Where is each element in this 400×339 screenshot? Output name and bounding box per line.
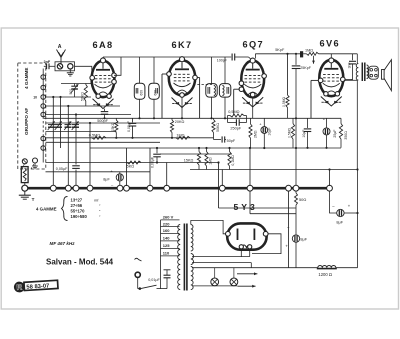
tube label 6A8 [93, 40, 114, 50]
wire 6K7 cathode down [181, 97, 183, 118]
speaker magnet [369, 66, 379, 79]
wire column x150 [149, 148, 151, 186]
band terminal 7 [41, 146, 46, 151]
svg-text:mℓ: mℓ [94, 198, 99, 202]
junction dot 1 [52, 96, 54, 98]
svg-text:T: T [32, 197, 35, 202]
band list row 3 [71, 209, 102, 214]
svg-text:4 GAMME: 4 GAMME [36, 207, 57, 212]
power transformer core [184, 224, 187, 291]
label 0,1M vertical [231, 155, 235, 166]
variable capacitor 500 [71, 84, 79, 98]
capacitor 0,05uF [56, 166, 80, 171]
6Q7 right pin [262, 74, 267, 79]
6K7 top cap pin [180, 57, 185, 62]
wire row y131.5 [46, 131, 117, 133]
svg-text:50Ω: 50Ω [299, 197, 306, 202]
capacitor 3nF [349, 54, 356, 81]
phono terminal left [22, 159, 27, 164]
wire bus to 8uF [330, 191, 337, 213]
transformer tap 125 [161, 243, 180, 248]
catalog stamp [14, 279, 58, 292]
electrolytic 8uF filter left [116, 172, 123, 187]
label 8uF B [285, 224, 307, 248]
label 0,08uF vertical [127, 121, 131, 132]
svg-text:4 GAMME: 4 GAMME [24, 68, 29, 89]
svg-text:500: 500 [69, 89, 73, 95]
label 500pF [97, 119, 108, 123]
label 5KpF [275, 48, 285, 52]
label MF 467 kHz [50, 241, 76, 246]
label 8uF A [332, 203, 351, 224]
electrolytic 8uF filter B [292, 235, 299, 268]
wire 5Y3 row upper [219, 207, 297, 209]
svg-text:10μF: 10μF [268, 128, 272, 136]
label 1M vertical volume [209, 157, 213, 165]
IF transformer 1 primary can [134, 83, 145, 99]
trimmer capacitor 3 [64, 121, 71, 130]
right rail [357, 170, 359, 268]
wire 6V6 screen right [345, 78, 352, 81]
junction dot 5 [89, 122, 91, 124]
dial lamp 2 [230, 268, 238, 286]
junction dot 19 [295, 117, 297, 119]
resistor 0,5M screen [291, 118, 294, 148]
svg-text:50KΩ: 50KΩ [80, 92, 84, 101]
wire row 169.5 [190, 169, 358, 171]
label 10uF vertical [268, 128, 272, 136]
svg-text:2MΩ: 2MΩ [254, 130, 258, 138]
label 250pF [230, 127, 241, 131]
band terminal 4 [41, 104, 46, 109]
label 500 vertical [69, 89, 73, 95]
wire plate load top [287, 54, 289, 95]
wire IF2 secondary top [224, 57, 226, 84]
wire column x222.3 [221, 170, 223, 187]
transformer tap 260 V [161, 215, 180, 220]
label 1M ohm 6V6 [305, 48, 313, 52]
svg-text:GRUPPO AF: GRUPPO AF [24, 108, 29, 135]
wire IF1 secondary top [153, 57, 155, 83]
output transformer primary [356, 64, 358, 81]
wire row y123 [46, 122, 161, 124]
speaker cone [382, 60, 392, 91]
resistor 1M grid 6V6 [303, 52, 357, 55]
phono terminal right [33, 158, 38, 163]
svg-text:5KΩ: 5KΩ [127, 165, 135, 169]
svg-text:600: 600 [139, 90, 143, 96]
label 0,5M vertical 6V6 [288, 127, 292, 138]
wire IF1 primary top [139, 57, 141, 83]
6V6 right pin [341, 77, 346, 82]
bus junction 2 [65, 185, 71, 191]
bus junction 12 [293, 185, 299, 191]
power switch [138, 285, 161, 289]
capacitor 2nF label [44, 60, 51, 64]
wire row y137.8 [46, 137, 214, 139]
wire column x126.5 [126, 148, 128, 186]
label 5K ohm [127, 165, 135, 169]
main earth ground [19, 191, 31, 199]
svg-text:5Y3: 5Y3 [234, 202, 258, 212]
junction dot 16 [263, 147, 265, 149]
svg-text:10: 10 [33, 96, 37, 100]
junction dot 20 [306, 147, 308, 149]
svg-text:1MΩ: 1MΩ [209, 157, 213, 165]
label 4 GAMME [36, 207, 57, 212]
wire heater line A [192, 262, 251, 264]
svg-text:100pF: 100pF [217, 59, 228, 63]
svg-text:350Ω: 350Ω [344, 131, 348, 140]
bus junction 10 [247, 185, 253, 191]
field coil 1200 ohm [317, 265, 337, 268]
wire 5V winding [192, 256, 250, 258]
transformer tap 160 [161, 228, 180, 233]
svg-text:500pF: 500pF [97, 119, 108, 123]
junction dot 10 [153, 117, 155, 119]
junction dot 22 [328, 168, 330, 170]
bus junction 5 [117, 185, 123, 191]
svg-text:0,5MΩ: 0,5MΩ [228, 110, 239, 114]
svg-text:0,5MΩ: 0,5MΩ [89, 134, 100, 138]
junction dot 14 [224, 117, 226, 119]
svg-text:190÷580: 190÷580 [71, 214, 88, 219]
bus junction 11 [286, 185, 292, 191]
junction dot 13 [210, 117, 212, 119]
junction dot 7 [115, 137, 117, 139]
svg-text:Salvan - Mod. 544: Salvan - Mod. 544 [46, 258, 114, 267]
5Y3 bottom pin left [239, 245, 243, 249]
6Q7 top cap pin [250, 58, 255, 63]
wire 6Q7 plate top [255, 54, 300, 59]
capacitor 0,08uF coupling [153, 148, 161, 163]
wire IF2 secondary bottom [224, 97, 226, 118]
dial lamp 1 [211, 268, 219, 286]
junction dot 4 [75, 113, 77, 115]
ground under earth terminal [67, 69, 74, 76]
junction dot 29 [198, 147, 200, 149]
wire 6A8 plate to IF1 [114, 57, 121, 75]
label GRUPPO AF vertical [24, 108, 29, 135]
resistor 0,5M diode load [228, 114, 247, 117]
duodiode triode tube 6Q7 [241, 61, 264, 98]
earth terminal [68, 64, 73, 69]
svg-text:13÷27: 13÷27 [71, 197, 83, 202]
svg-text:20KΩ: 20KΩ [175, 120, 185, 124]
power transformer heater secondary [191, 267, 193, 290]
6A8 right pin lower [112, 80, 117, 85]
IF transformer 1 secondary can [149, 83, 160, 99]
junction dot 6 [103, 117, 105, 119]
wire B+ line [344, 79, 358, 81]
junction dot 23 [356, 212, 358, 214]
capacitor 10uF 6V6 [304, 118, 312, 148]
6A8 left pin [90, 76, 95, 81]
wire IF2 primary bottom [211, 97, 213, 118]
wire column x250 [249, 148, 251, 186]
label 50pF [227, 139, 236, 143]
svg-text:0,05μF: 0,05μF [56, 167, 68, 171]
resistor 15K cathode [115, 118, 118, 138]
bus junction 7 [147, 185, 153, 191]
label 2M ohm vertical [254, 130, 258, 138]
bus junction 3 [73, 185, 79, 191]
6K7 right pin [193, 75, 198, 80]
trimmer capacitor 2 [55, 121, 62, 130]
svg-text:140: 140 [163, 236, 170, 241]
svg-text:0,5MΩ: 0,5MΩ [288, 127, 292, 138]
6K7 heater [172, 98, 193, 108]
main ground bus [25, 187, 332, 190]
trimmer capacitor 1 [48, 121, 55, 130]
5Y3 bottom pin right [248, 245, 252, 249]
wire 5Y3 heater right [249, 249, 251, 257]
6A8 top cap pin [101, 57, 106, 63]
coil unit dashed box [18, 63, 46, 169]
svg-text:MF 467 kHz: MF 467 kHz [50, 241, 76, 246]
pickup coil box [21, 167, 28, 183]
potentiometer 1M volume [205, 148, 208, 170]
transformer tap 140 [161, 236, 180, 241]
junction dot 24 [356, 168, 358, 170]
AVC arrow [312, 56, 315, 64]
band list row 2 [71, 203, 102, 208]
svg-text:0,5MΩ: 0,5MΩ [282, 96, 286, 107]
junction dot 31 [228, 147, 230, 149]
band terminal 1 [41, 75, 46, 80]
resistor 50 ohm filter [295, 191, 298, 235]
wire column x90 [89, 123, 91, 187]
band terminal 2 [41, 85, 46, 90]
junction dot 9 [138, 117, 140, 119]
rectifier tube 5Y3 [227, 223, 266, 249]
capacitor 50pF [214, 136, 227, 142]
wire heater line C [192, 285, 237, 287]
tap selector rail [160, 220, 162, 289]
resistor 1M 6K7 [176, 136, 190, 139]
junction dot 26 [217, 161, 219, 163]
resistor 0,5M AVC [92, 136, 106, 139]
bus junction 1 [50, 185, 56, 191]
IF transformer 2 primary can [206, 84, 217, 98]
junction dot 8 [131, 137, 133, 139]
junction dot 18 [286, 53, 288, 55]
label T [32, 197, 35, 202]
junction dot 17 [295, 53, 297, 55]
label 0,5M ohm 6Q7 [228, 110, 239, 114]
wire to output transformer [356, 54, 358, 63]
capacitor 0,08uF screen [129, 118, 137, 138]
6A8 bottom pin right [107, 94, 111, 98]
wire row y162.5 [46, 162, 219, 164]
junction dot 28 [156, 147, 158, 149]
6V6 heater [321, 97, 342, 107]
svg-text:6K7: 6K7 [172, 40, 193, 50]
6V6 bottom pin left [324, 92, 328, 96]
svg-text:10μF: 10μF [302, 130, 306, 138]
bus junction 4 [87, 185, 93, 191]
svg-text:6A8: 6A8 [93, 40, 114, 50]
tube label 6K7 [172, 40, 193, 50]
svg-text:0,08μF: 0,08μF [150, 157, 154, 168]
electrolytic 25uF cathode [323, 116, 330, 147]
wire 6Q7 cathode down [252, 97, 254, 118]
dashed AVC line 6K7 [197, 84, 212, 86]
left terminal rail [42, 69, 44, 163]
wire heater line B [192, 267, 318, 269]
svg-text:0,01μF: 0,01μF [148, 278, 160, 282]
label 15K ohm lower [184, 159, 194, 163]
tube label 6V6 [320, 39, 341, 49]
wire heater line B right [336, 267, 358, 269]
antenna terminal [57, 64, 62, 69]
output transformer core [362, 63, 365, 82]
svg-text:220: 220 [163, 221, 170, 226]
resistor 0,5M 6Q7 plate [286, 54, 289, 119]
junction dot 3 [67, 105, 69, 107]
6Q7 bottom pin [250, 92, 255, 97]
wire 5Y3 right loop [252, 234, 281, 254]
band terminal 6 [41, 136, 46, 141]
resistor 5K [127, 161, 141, 164]
svg-text:R: R [16, 283, 23, 292]
wire column x76 [75, 115, 77, 165]
label 50K ohm 6Q7 vertical [216, 123, 220, 132]
svg-text:110: 110 [163, 251, 170, 256]
wire 6Q7 diode pin [234, 89, 239, 115]
dashed leads to phono [22, 163, 34, 169]
label 3nF vertical [347, 62, 351, 68]
label 1200 ohm [318, 272, 332, 277]
svg-text:1200 Ω: 1200 Ω [318, 272, 332, 277]
antenna A label [58, 44, 62, 50]
wire HV to 5Y3 left [191, 220, 226, 233]
6V6 top cap pin [329, 54, 334, 63]
wire screen feed down [218, 163, 220, 209]
svg-text:1MΩ: 1MΩ [176, 133, 184, 137]
svg-text:125: 125 [163, 243, 170, 248]
label 4 GAMME vertical [24, 68, 29, 89]
wire column x76 lower [75, 170, 77, 187]
svg-text:25KpF: 25KpF [300, 66, 312, 70]
junction dot 11 [171, 137, 173, 139]
power transformer primary [178, 225, 180, 290]
beam tetrode tube 6V6 [319, 60, 343, 96]
heater arrow A [237, 263, 257, 276]
junction dot 27 [156, 161, 158, 163]
label 50 ohm [299, 197, 306, 202]
wire mains down [137, 277, 139, 288]
power transformer HV secondary [191, 225, 193, 252]
mains fuse glyph [135, 258, 142, 261]
wire row 148 [90, 147, 341, 149]
capacitor 250pF [228, 116, 247, 126]
wire output transformer bottom [356, 80, 358, 170]
svg-text:8μF: 8μF [300, 237, 307, 242]
label 1M ohm 6K7 [176, 133, 184, 137]
wire pickup to bus [24, 183, 26, 186]
capacitor 0,01uF [161, 270, 171, 289]
bus junction 8 [164, 185, 170, 191]
6A8 bottom pin left [96, 94, 100, 98]
capacitor 25KpF [292, 54, 301, 187]
label 10uF vertical 6V6 [302, 130, 306, 138]
resistor 20K [170, 118, 173, 138]
svg-text:250pF: 250pF [230, 127, 241, 131]
wire osc grid [61, 83, 92, 85]
capacitor 500pF [101, 112, 109, 119]
wire row 118 [44, 117, 341, 119]
phono ground arrow [32, 163, 38, 169]
pentode tube 6K7 [169, 60, 195, 95]
label 5Y3 [234, 202, 258, 212]
wire row y106 [46, 105, 121, 107]
band terminal 3 [41, 95, 46, 100]
svg-text:15KΩ: 15KΩ [111, 122, 115, 131]
wire 6A8 cathode down [104, 109, 106, 112]
label 25KpF [300, 66, 312, 70]
svg-text:5KpF: 5KpF [275, 48, 285, 52]
svg-text:A: A [58, 44, 62, 50]
tube label 6Q7 [243, 39, 265, 49]
wire IF1 primary bottom [139, 99, 141, 118]
title Salvan - Mod. 544 [46, 258, 114, 267]
junction dot 12 [181, 117, 183, 119]
wire 6V6 grid pin [311, 80, 318, 118]
mains terminal [135, 272, 140, 277]
junction dot 21 [325, 147, 327, 149]
wire IF1 secondary bottom [153, 99, 155, 118]
trimmer capacitor 4 [72, 121, 79, 130]
svg-text:160: 160 [163, 228, 170, 233]
wire 5Y3 heater left [240, 249, 242, 257]
junction dot 2 [59, 96, 61, 98]
svg-text:6Q7: 6Q7 [243, 39, 265, 49]
label 50K ohm vertical [80, 92, 84, 101]
wire row y171.8 [46, 171, 151, 173]
svg-text:260 V: 260 V [163, 215, 174, 220]
wire column x288.5 [288, 191, 290, 268]
antenna terminal box [55, 62, 75, 71]
svg-text:50pF: 50pF [227, 139, 236, 143]
svg-text:8μF: 8μF [336, 219, 343, 224]
wire column x60.5 [60, 97, 62, 148]
junction dot 30 [205, 147, 207, 149]
6V6 bottom pin right [335, 92, 339, 96]
resistor 2M [249, 118, 252, 148]
resistor 0,1M [228, 148, 231, 170]
capacitor 100pF [217, 54, 252, 63]
5Y3 left pin [226, 231, 231, 236]
output transformer secondary [367, 65, 369, 79]
wire row y114.5 [46, 114, 132, 116]
pentagrid tube 6A8 [92, 61, 115, 97]
bus junction 9 [219, 185, 225, 191]
electrolytic 8uF filter A [337, 209, 358, 216]
antenna symbol [57, 50, 66, 64]
label 10 [33, 96, 37, 100]
6K7 left pin [167, 72, 172, 77]
wire top grid bus [103, 56, 231, 58]
6A8 right pin upper [112, 73, 117, 78]
resistor 50K ohm oscillator [84, 84, 87, 107]
coupling capacitor block [300, 51, 303, 57]
svg-text:1MΩ: 1MΩ [305, 48, 313, 52]
resistor 15K lower [197, 148, 200, 170]
label 350 ohm vertical [344, 131, 348, 140]
svg-text:0,08μF: 0,08μF [127, 121, 131, 132]
bus junction 13 [327, 185, 333, 191]
